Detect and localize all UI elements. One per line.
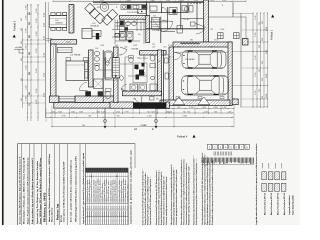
- svg-text:JEDALEN: JEDALEN: [55, 22, 63, 25]
- svg-text:1 200: 1 200: [26, 66, 28, 71]
- svg-text:25,4: 25,4: [102, 206, 104, 209]
- svg-text:900: 900: [104, 59, 107, 61]
- svg-text:3 775: 3 775: [124, 111, 128, 113]
- svg-text:dlazba: dlazba: [127, 211, 129, 216]
- svg-text:725: 725: [153, 16, 156, 18]
- svg-text:900: 900: [121, 89, 124, 91]
- svg-text:1 200: 1 200: [26, 16, 28, 21]
- svg-text:1 050: 1 050: [220, 29, 224, 31]
- svg-text:1 050: 1 050: [266, 94, 268, 98]
- svg-text:1 050: 1 050: [266, 50, 268, 54]
- svg-text:25,4: 25,4: [123, 206, 125, 209]
- svg-text:Datum: 11/2016 Stupen: DSP F: Datum: 11/2016 Stupen: DSP Format: A2 Mi…: [39, 157, 42, 224]
- svg-text:2 125: 2 125: [255, 91, 257, 96]
- svg-text:Klampiarske vyrobky z pozinkov: Klampiarske vyrobky z pozinkovaneho plec…: [188, 165, 191, 225]
- svg-text:1.02: 1.02: [95, 48, 98, 50]
- svg-text:2 125: 2 125: [255, 16, 257, 21]
- svg-text:Miesto stavby: k.u. Bukova, pa: Miesto stavby: k.u. Bukova, parc.c. 684/…: [23, 157, 26, 224]
- svg-text:1.09 WC: 1.09 WC: [183, 19, 190, 21]
- svg-text:GSPublisherEngine 0.0.100.33 v: GSPublisherEngine 0.0.100.33 vytlacene v…: [75, 156, 78, 222]
- svg-text:1 125: 1 125: [125, 1, 129, 3]
- svg-text:25,4: 25,4: [119, 206, 121, 209]
- svg-text:Vypis skladieb podlah: Vypis skladieb podlah: [293, 194, 295, 215]
- svg-text:25,4: 25,4: [98, 206, 100, 209]
- svg-text:900: 900: [104, 92, 107, 94]
- svg-text:900: 900: [158, 61, 161, 63]
- svg-text:1 200: 1 200: [26, 6, 28, 11]
- svg-text:Poznamka: vsetky rozmery overi: Poznamka: vsetky rozmery overit na stavb…: [211, 159, 214, 225]
- svg-text:dlazba: dlazba: [98, 211, 100, 216]
- svg-text:650: 650: [21, 78, 23, 81]
- svg-text:25,4: 25,4: [104, 206, 106, 209]
- svg-text:1.05 KUCHYNA: 1.05 KUCHYNA: [127, 11, 140, 14]
- svg-text:25,4: 25,4: [112, 206, 114, 209]
- svg-text:25,4: 25,4: [121, 206, 123, 209]
- svg-text:900: 900: [229, 111, 232, 113]
- svg-text:650: 650: [21, 58, 23, 61]
- svg-text:650: 650: [21, 18, 23, 21]
- svg-text:725: 725: [166, 111, 169, 113]
- svg-text:900: 900: [152, 1, 155, 3]
- svg-text:1 425: 1 425: [210, 0, 214, 2]
- svg-text:900: 900: [150, 54, 153, 56]
- svg-text:25,4: 25,4: [100, 206, 102, 209]
- svg-text:dlazba: dlazba: [89, 211, 91, 216]
- svg-text:dlazba: dlazba: [112, 211, 114, 216]
- svg-text:dlazba: dlazba: [100, 211, 102, 216]
- svg-text:1 200: 1 200: [26, 29, 28, 34]
- svg-text:2 425: 2 425: [36, 19, 38, 24]
- svg-text:850: 850: [29, 103, 31, 106]
- svg-text:1 425: 1 425: [100, 45, 104, 47]
- svg-text:1.06: 1.06: [124, 47, 127, 49]
- svg-text:900: 900: [138, 34, 141, 36]
- svg-text:1 450: 1 450: [178, 1, 182, 3]
- svg-text:dlazba: dlazba: [106, 211, 108, 216]
- svg-text:25,4: 25,4: [127, 206, 129, 209]
- svg-text:dlazba: dlazba: [123, 211, 125, 216]
- svg-text:Nazov vykresu:: Nazov vykresu:: [51, 207, 53, 222]
- svg-text:725: 725: [259, 22, 261, 25]
- svg-text:25,4: 25,4: [87, 206, 89, 209]
- svg-text:Arch. stud. - projekt rodinneh: Arch. stud. - projekt rodinneho domu, vs…: [70, 159, 73, 222]
- svg-text:Pohlad 3: Pohlad 3: [13, 20, 17, 31]
- svg-text:950: 950: [262, 78, 264, 81]
- svg-text:725: 725: [147, 111, 150, 113]
- svg-text:1.15: 1.15: [210, 47, 213, 49]
- svg-text:2 425: 2 425: [36, 100, 38, 105]
- svg-text:650: 650: [21, 28, 23, 31]
- svg-text:725: 725: [29, 12, 31, 15]
- svg-text:Zodp. projektant: Ing. arch. Z: Zodp. projektant: Ing. arch. Zdenko Vyda…: [31, 157, 34, 224]
- svg-text:2 125: 2 125: [255, 73, 257, 78]
- svg-text:2 125: 2 125: [168, 45, 172, 47]
- svg-text:Vnutorne omietky vapennocement: Vnutorne omietky vapennocementove hladke…: [165, 176, 168, 225]
- svg-text:1 425: 1 425: [44, 23, 46, 27]
- svg-text:1 425: 1 425: [133, 45, 137, 47]
- svg-text:RD Bukova, p.c. 684/15: RD Bukova, p.c. 684/15: [43, 192, 47, 222]
- svg-text:Zvisla hydroizolacia nopova fo: Zvisla hydroizolacia nopova folia s ukon…: [195, 163, 198, 225]
- svg-text:900: 900: [119, 55, 122, 57]
- svg-text:1 425: 1 425: [44, 93, 46, 97]
- svg-text:25,4: 25,4: [91, 206, 93, 209]
- svg-text:Podorys 1np: Podorys 1np: [56, 203, 60, 220]
- svg-text:725: 725: [29, 35, 31, 38]
- svg-text:1 425: 1 425: [44, 36, 46, 40]
- svg-text:dlazba: dlazba: [87, 211, 89, 216]
- svg-text:25,4: 25,4: [106, 206, 108, 209]
- svg-text:1 050: 1 050: [266, 74, 268, 78]
- svg-text:3 150: 3 150: [214, 40, 218, 42]
- svg-text:dlazba: dlazba: [125, 211, 127, 216]
- svg-text:1 200: 1 200: [222, 107, 226, 109]
- svg-text:1 425: 1 425: [116, 111, 120, 113]
- svg-text:25,4: 25,4: [117, 206, 119, 209]
- svg-text:950: 950: [262, 38, 264, 41]
- svg-text:dlazba: dlazba: [93, 211, 95, 216]
- svg-text:5 250: 5 250: [189, 107, 193, 109]
- svg-text:2 425: 2 425: [36, 32, 38, 37]
- svg-text:1 425: 1 425: [44, 73, 46, 77]
- svg-text:dlazba: dlazba: [110, 211, 112, 216]
- svg-text:±0,000: ±0,000: [15, 47, 22, 49]
- svg-text:1.08 WC 2,20 ker. dlazba: 1.08 WC 2,20 ker. dlazba: [126, 183, 129, 202]
- svg-text:Murivo Porotherm 30 P+D: Murivo Porotherm 30 P+D: [283, 192, 286, 215]
- svg-text:Cislo vykresu: 03 Mierka: M 1: Cislo vykresu: 03 Mierka: M 1:50 Datum 1…: [63, 161, 66, 222]
- svg-text:1.08 SPAJZA: 1.08 SPAJZA: [152, 29, 163, 32]
- svg-text:725: 725: [117, 116, 120, 118]
- svg-text:725: 725: [29, 52, 31, 55]
- svg-text:1 200: 1 200: [26, 46, 28, 51]
- svg-text:900: 900: [115, 45, 118, 47]
- svg-text:1.01 SPALNA: 1.01 SPALNA: [70, 54, 81, 57]
- svg-text:1.11: 1.11: [125, 57, 128, 59]
- svg-text:dlazba: dlazba: [119, 211, 121, 216]
- svg-text:dlazba: dlazba: [91, 211, 93, 216]
- svg-text:1 425: 1 425: [204, 111, 208, 113]
- svg-text:1 425: 1 425: [44, 53, 46, 57]
- svg-text:950: 950: [262, 21, 264, 24]
- svg-text:dlazba: dlazba: [102, 211, 104, 216]
- svg-text:Legenda miestnosti - vypis mie: Legenda miestnosti - vypis miestnosti 1.…: [82, 152, 85, 224]
- svg-text:1.10: 1.10: [163, 47, 166, 49]
- svg-text:1 425: 1 425: [100, 0, 104, 2]
- svg-text:Stupen: Projekt pre stavebne p: Stupen: Projekt pre stavebne povolenie D…: [26, 157, 29, 224]
- svg-text:725: 725: [29, 92, 31, 95]
- svg-text:900: 900: [133, 99, 136, 101]
- svg-text:950: 950: [262, 96, 264, 99]
- svg-text:OBYVACIA: OBYVACIA: [90, 25, 99, 28]
- svg-text:25,4: 25,4: [125, 206, 127, 209]
- svg-text:725: 725: [187, 111, 190, 113]
- svg-text:Tepelna izolacia XPS hr. 100 m: Tepelna izolacia XPS hr. 100 mm v sokli …: [149, 179, 152, 225]
- svg-text:Vypracoval: Ing. Peter Mihalov: Vypracoval: Ing. Peter Mihalovic, Ing. M…: [36, 160, 39, 224]
- svg-text:1 425: 1 425: [58, 111, 62, 113]
- svg-text:2 425: 2 425: [36, 9, 38, 14]
- svg-text:1 425: 1 425: [222, 0, 226, 2]
- svg-text:1.07: 1.07: [152, 47, 155, 49]
- svg-text:1 425: 1 425: [166, 0, 170, 2]
- svg-text:Murivo Porotherm 30 P+D: Murivo Porotherm 30 P+D: [263, 192, 266, 215]
- svg-text:725: 725: [259, 89, 261, 92]
- svg-text:900: 900: [177, 107, 180, 109]
- svg-text:Pohlad 1: Pohlad 1: [270, 29, 274, 40]
- svg-text:1.12 TECH.: 1.12 TECH.: [139, 58, 148, 60]
- svg-text:425: 425: [97, 7, 100, 9]
- svg-text:900: 900: [88, 116, 91, 118]
- svg-text:25,4: 25,4: [110, 206, 112, 209]
- svg-text:2 150: 2 150: [66, 42, 70, 44]
- svg-text:Murivo Porotherm 30 P+D: Murivo Porotherm 30 P+D: [270, 192, 273, 215]
- svg-text:1 200: 1 200: [71, 111, 75, 113]
- svg-text:725: 725: [259, 69, 261, 72]
- svg-text:725: 725: [259, 45, 261, 48]
- svg-text:950: 950: [262, 61, 264, 64]
- svg-text:Vnutorne parapety drevotriesko: Vnutorne parapety drevotrieskove laminov…: [175, 169, 178, 225]
- svg-text:900: 900: [156, 99, 159, 101]
- svg-text:Murivo Porotherm 30 P+D: Murivo Porotherm 30 P+D: [276, 192, 279, 215]
- svg-text:2 425: 2 425: [36, 69, 38, 74]
- svg-text:Legenda materialov:: Legenda materialov:: [288, 194, 291, 215]
- svg-text:1 050: 1 050: [266, 27, 268, 31]
- svg-text:1 200: 1 200: [147, 116, 151, 118]
- svg-text:1 200: 1 200: [26, 97, 28, 102]
- svg-text:725: 725: [177, 47, 180, 49]
- svg-text:25,4: 25,4: [108, 206, 110, 209]
- svg-text:Investor: Juraj a Maria Novako: Investor: Juraj a Maria Novakovci, Bukov…: [19, 156, 22, 224]
- svg-text:25,4: 25,4: [95, 206, 97, 209]
- svg-text:725: 725: [183, 111, 186, 113]
- svg-text:11 600: 11 600: [140, 125, 145, 127]
- svg-text:Pohlad 4: Pohlad 4: [177, 135, 188, 139]
- svg-text:2 425: 2 425: [36, 89, 38, 94]
- svg-text:2 450: 2 450: [213, 107, 217, 109]
- svg-text:1 050: 1 050: [96, 111, 100, 113]
- svg-text:25,4: 25,4: [115, 206, 117, 209]
- svg-text:dlazba: dlazba: [115, 211, 117, 216]
- svg-text:2 450: 2 450: [183, 116, 187, 118]
- svg-text:dlazba: dlazba: [121, 211, 123, 216]
- svg-text:dlazba: dlazba: [95, 211, 97, 216]
- svg-text:1 425: 1 425: [151, 111, 155, 113]
- svg-text:980: 980: [190, 40, 193, 42]
- svg-text:25,4: 25,4: [89, 206, 91, 209]
- svg-text:2 125: 2 125: [255, 56, 257, 61]
- svg-text:900: 900: [82, 125, 85, 127]
- svg-text:725: 725: [29, 72, 31, 75]
- svg-text:dlazba: dlazba: [108, 211, 110, 216]
- svg-text:675: 675: [133, 21, 136, 23]
- svg-text:2 125: 2 125: [255, 33, 257, 38]
- svg-text:900: 900: [214, 111, 217, 113]
- svg-text:725: 725: [210, 29, 213, 31]
- svg-text:1 425: 1 425: [44, 13, 46, 17]
- svg-text:Legenda miestnosti 1.np - ploc: Legenda miestnosti 1.np - plochy miestno…: [130, 149, 133, 224]
- svg-text:1 2: 1 2: [116, 23, 118, 25]
- svg-text:dlazba: dlazba: [104, 211, 106, 216]
- svg-text:725: 725: [29, 22, 31, 25]
- svg-text:1.14 GARAZ: 1.14 GARAZ: [185, 58, 195, 61]
- svg-text:1.13: 1.13: [168, 57, 171, 59]
- svg-text:1 200: 1 200: [26, 86, 28, 91]
- svg-text:1 425: 1 425: [202, 107, 206, 109]
- svg-text:650: 650: [21, 41, 23, 44]
- svg-text:CHODBA: CHODBA: [131, 48, 139, 51]
- svg-text:3 775: 3 775: [61, 116, 65, 118]
- svg-text:25,4: 25,4: [93, 206, 95, 209]
- svg-text:2 425: 2 425: [36, 49, 38, 54]
- svg-text:650: 650: [21, 98, 23, 101]
- svg-text:725: 725: [152, 44, 155, 46]
- svg-text:Legenda materialov konstrukcii: Legenda materialov konstrukcii povrchove…: [255, 143, 258, 225]
- svg-text:1 425: 1 425: [194, 0, 198, 2]
- svg-text:dlazba: dlazba: [117, 211, 119, 216]
- svg-text:1 050: 1 050: [79, 111, 83, 113]
